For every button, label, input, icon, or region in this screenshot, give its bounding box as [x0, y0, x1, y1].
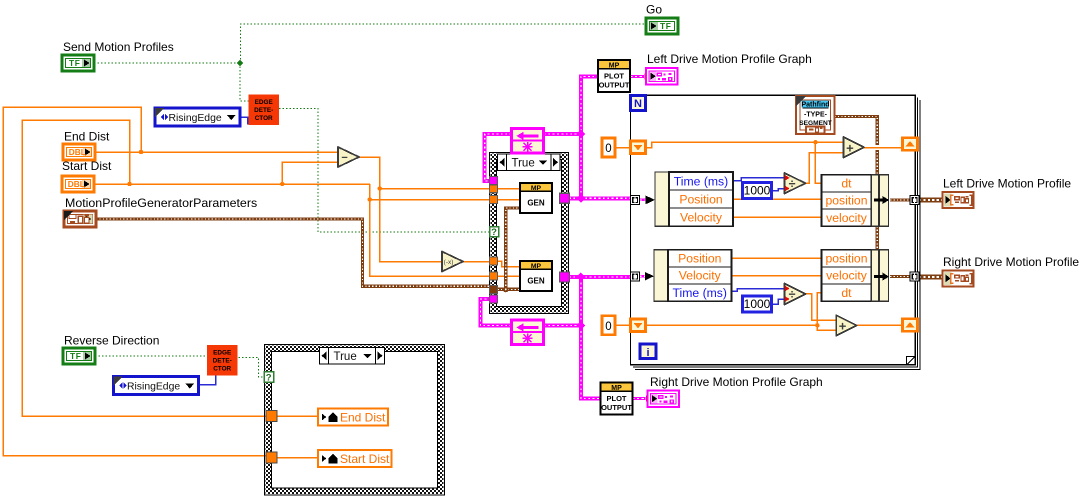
- wire: add 1 output to right shift register: [864, 147, 905, 149]
- wire: Start Dist to junctions: [94, 183, 370, 185]
- case structure 1 border: [490, 153, 569, 314]
- wire: 0 constant to left shift register (top): [615, 147, 631, 149]
- for loop frame: [631, 95, 916, 364]
- Pathfind type segment VI icon: [796, 96, 835, 134]
- svg-text:1000: 1000: [744, 184, 771, 198]
- shift register left bottom: [631, 319, 646, 332]
- node: brown wire junction: [503, 287, 509, 293]
- svg-text:OUTPUT: OUTPUT: [599, 81, 630, 90]
- svg-text:÷: ÷: [789, 288, 796, 302]
- case structure 2 border: [265, 345, 445, 496]
- indicator: Right Drive Motion Profile: [943, 271, 974, 287]
- svg-text:1000: 1000: [744, 297, 771, 311]
- constant 1000 top: [743, 183, 772, 199]
- svg-text:PLOT: PLOT: [604, 72, 624, 81]
- wire: MP GEN 1 output to plot output 1 and loop: [569, 77, 598, 199]
- local variable Start Dist: [318, 450, 392, 467]
- svg-text:OUTPUT: OUTPUT: [601, 403, 632, 412]
- svg-text:MP: MP: [611, 385, 622, 392]
- svg-text:RisingEdge: RisingEdge: [127, 382, 180, 393]
- wire: 0 constant to left shift register (bottom): [615, 324, 631, 326]
- divide node 1: [785, 173, 806, 194]
- svg-text:DETE-: DETE-: [254, 107, 273, 114]
- case structure 2 selector: [320, 348, 385, 365]
- svg-text:GEN: GEN: [527, 277, 545, 286]
- indicator: Left Drive Motion Profile: [943, 192, 974, 208]
- svg-text:TF: TF: [660, 21, 671, 31]
- local variable End Dist: [318, 409, 388, 426]
- tunnel: feedback into case 1 lower (magenta): [490, 295, 498, 303]
- divide node 2: [785, 284, 806, 305]
- control: End Dist: [63, 144, 95, 160]
- svg-text:TF: TF: [69, 58, 80, 68]
- wire: edge detector 1 output to case 1 selector: [279, 109, 490, 233]
- wire: Send Motion Profiles boolean to junction: [94, 62, 240, 64]
- svg-text:Send Motion Profiles: Send Motion Profiles: [63, 40, 174, 54]
- tunnel: GEN 1 output: [560, 193, 570, 203]
- tunnel: negated difference input: [490, 257, 498, 265]
- bundle by name 2: [822, 250, 872, 267]
- wire: subtract output down to negate: [359, 157, 442, 262]
- wire: branch to feedback node 1: [544, 132, 581, 136]
- svg-text:Go: Go: [646, 3, 662, 17]
- wire: 1000 constant to divide 1: [771, 189, 785, 191]
- svg-text:EDGE: EDGE: [213, 350, 232, 357]
- unbundle by name 1: [655, 172, 669, 226]
- tunnel: end dist local input: [266, 411, 277, 422]
- wire: bundle 2 output to loop tunnel: [890, 275, 910, 278]
- svg-text:Reverse Direction: Reverse Direction: [64, 334, 159, 348]
- wire: Start Dist swap route to End Dist local: [22, 120, 267, 416]
- wire: difference to case tunnel (upper GEN input): [380, 188, 491, 190]
- wire: case 2 locals: [277, 415, 318, 417]
- wire: GEN 2 cluster to for loop: [581, 275, 631, 279]
- wire: End Dist to subtract: [95, 151, 338, 153]
- svg-text:Start Dist: Start Dist: [340, 452, 390, 466]
- N count terminal: [631, 95, 646, 110]
- wire: unbundle Position/Velocity to bundle (bottom): [732, 257, 822, 259]
- tunnel: loop index out 1: [910, 196, 919, 205]
- tunnel: GEN 2 output: [560, 272, 570, 282]
- edge detector 1: [249, 95, 280, 126]
- negate node: [442, 252, 463, 272]
- svg-text:MP: MP: [531, 263, 542, 270]
- wire: parameters cluster to case 1: [96, 219, 491, 286]
- svg-text:i: i: [646, 347, 649, 359]
- wire: branch to feedback node 2: [544, 323, 581, 327]
- svg-text:MotionProfileGeneratorParamete: MotionProfileGeneratorParameters: [65, 196, 257, 210]
- svg-text:÷: ÷: [789, 177, 796, 191]
- constant 0 bottom: [602, 316, 615, 335]
- feedback node 1: [512, 129, 544, 154]
- tunnel: case 1 selector ?: [490, 227, 499, 237]
- svg-text:True: True: [512, 158, 535, 170]
- svg-text:Right Drive Motion Profile Gra: Right Drive Motion Profile Graph: [650, 375, 823, 389]
- svg-text:N: N: [634, 98, 642, 110]
- add node 1: [844, 137, 865, 158]
- indicator: Go: [646, 18, 678, 34]
- svg-text:DBL: DBL: [69, 147, 86, 157]
- combo: RisingEdge 1: [155, 108, 240, 126]
- tunnel: start dist input: [490, 196, 498, 204]
- svg-text:MP: MP: [609, 62, 620, 69]
- svg-text:GEN: GEN: [527, 199, 545, 208]
- tunnel: case 2 selector ?: [264, 372, 274, 383]
- wire: Start Dist branch to case tunnel: [370, 199, 491, 201]
- wire: GEN 1 cluster to for loop: [581, 196, 631, 200]
- svg-text:0: 0: [605, 321, 611, 333]
- svg-text:velocity: velocity: [826, 211, 868, 225]
- svg-text:Velocity: Velocity: [679, 269, 722, 283]
- node: green wire junction: [237, 60, 244, 67]
- wire: Start Dist up to subtract lower input: [282, 162, 338, 184]
- wire: RisingEdge 1 to edge detector 1: [240, 117, 248, 125]
- svg-text:position: position: [825, 252, 867, 266]
- wire: junction up to Go: [241, 24, 647, 63]
- wire: add 1 output crossing: [864, 147, 905, 149]
- wire: feedback node 1 output back into case: [485, 134, 512, 181]
- shift register right bottom: [903, 319, 918, 332]
- wire: divide 2 output to add 2 upper input: [806, 294, 837, 320]
- control: Reverse Direction: [63, 348, 95, 364]
- tunnel: loop index out 2: [910, 272, 919, 281]
- edge detector 2: [207, 345, 238, 376]
- control: Start Dist: [62, 176, 94, 192]
- MP GEN 2: [520, 261, 552, 291]
- wire: plot output 2 to graph terminal: [632, 397, 646, 400]
- svg-text:dt: dt: [841, 177, 852, 191]
- svg-text:Left Drive Motion Profile: Left Drive Motion Profile: [943, 177, 1071, 191]
- svg-text:RisingEdge: RisingEdge: [169, 113, 222, 124]
- svg-text:EDGE: EDGE: [255, 99, 274, 106]
- tunnel: loop index in 2: [631, 272, 640, 281]
- i iteration terminal: [640, 344, 656, 359]
- svg-text:True: True: [334, 351, 357, 363]
- svg-text:+: +: [846, 140, 854, 155]
- unbundle by name 2: [654, 250, 668, 302]
- wire: Reverse Direction boolean to edge detector 2: [95, 355, 207, 357]
- wire: plot output 1 to graph terminal: [630, 75, 644, 78]
- svg-text:Time (ms): Time (ms): [673, 286, 727, 300]
- svg-text:CTOR: CTOR: [213, 366, 231, 373]
- svg-text:Time (ms): Time (ms): [674, 174, 728, 188]
- svg-text:?: ?: [491, 227, 497, 238]
- svg-text:Left Drive Motion Profile Grap: Left Drive Motion Profile Graph: [647, 52, 812, 66]
- svg-text:TF: TF: [70, 351, 81, 361]
- svg-text:Position: Position: [679, 192, 722, 206]
- add node 2: [836, 315, 857, 336]
- svg-text:DETE-: DETE-: [213, 358, 232, 365]
- wire: Time (ms) to divide 2: [732, 289, 785, 292]
- tunnel: feedback into case 1 (magenta): [490, 177, 498, 185]
- wire: End Dist swap route to Start Dist local: [3, 107, 267, 456]
- wire: edge detector 2 output to case 2 selector: [239, 358, 265, 378]
- case structure 1 selector: [498, 154, 561, 171]
- wire: RisingEdge 2 to edge detector 2: [199, 376, 216, 385]
- wire: case tunnel to MP GEN 1 inputs: [498, 188, 521, 190]
- svg-text:Pathfind: Pathfind: [802, 101, 830, 108]
- svg-text:0: 0: [605, 143, 611, 155]
- tunnel: loop index in 1: [631, 196, 640, 205]
- wire: 1000 constant to divide 2: [772, 299, 785, 304]
- shift register left top: [631, 141, 646, 154]
- wire: Pathfind segment type cluster to bundles: [835, 117, 878, 175]
- bundle by name 1: [822, 175, 872, 192]
- wire: case tunnels to MP GEN 2 inputs: [498, 261, 521, 267]
- wire: Time (ms) to divide 1: [733, 178, 785, 181]
- tunnel: difference input: [490, 185, 498, 193]
- combo: RisingEdge 2: [114, 377, 199, 395]
- svg-text:Start Dist: Start Dist: [62, 159, 112, 173]
- constant 1000 bottom: [743, 296, 772, 312]
- svg-text:(-x): (-x): [444, 259, 454, 266]
- feedback node 2: [512, 320, 544, 345]
- svg-text:−: −: [341, 152, 347, 164]
- wire: feedback node 2 output back into case: [480, 299, 511, 325]
- wire: indexed profiles into unbundles: [640, 199, 646, 202]
- wire: shift register to add 1 and dt: [647, 142, 844, 147]
- svg-text:dt: dt: [841, 286, 852, 300]
- wire: add 2 output to right shift register: [857, 324, 905, 326]
- svg-text:?: ?: [266, 373, 272, 384]
- shift register right top: [903, 138, 918, 151]
- MP PLOT OUTPUT 2: [601, 383, 633, 415]
- wire: unbundle Position/Velocity to bundle (top): [733, 198, 822, 200]
- wire: profile array to Left Drive indicator: [919, 197, 943, 202]
- subtract node: [338, 147, 359, 167]
- for loop stacked shadow lines: [633, 98, 918, 367]
- svg-text:-TYPE-: -TYPE-: [804, 111, 828, 118]
- wire: MP GEN 2 output to plot output 2: [569, 277, 601, 399]
- tunnel: start dist local input: [266, 452, 277, 463]
- svg-text:velocity: velocity: [826, 269, 868, 283]
- wire: bundle 1 output to loop tunnel: [890, 199, 910, 202]
- graph terminal 1: [646, 68, 678, 85]
- wire: negate output to case tunnel: [463, 261, 491, 263]
- svg-text:MP: MP: [531, 185, 542, 192]
- wire: Start Dist down the case inputs: [370, 184, 491, 276]
- svg-text:End Dist: End Dist: [340, 410, 386, 424]
- svg-text:Right Drive Motion Profile: Right Drive Motion Profile: [943, 255, 1079, 269]
- control: MotionProfileGeneratorParameters: [64, 211, 96, 227]
- svg-text:DBL: DBL: [68, 179, 85, 189]
- svg-text:position: position: [825, 194, 867, 208]
- MP PLOT OUTPUT 1: [598, 60, 630, 92]
- tunnel: start dist input 2: [490, 272, 498, 280]
- wire: divide 1 output to add 1 lower input: [806, 153, 844, 184]
- graph terminal 2: [648, 391, 680, 408]
- svg-text:Position: Position: [678, 252, 721, 266]
- svg-text:CTOR: CTOR: [255, 115, 273, 122]
- for loop folded corner: [907, 357, 916, 365]
- svg-text:+: +: [839, 319, 847, 334]
- wire: parameters inside case to both GEN nodes: [498, 288, 521, 291]
- svg-text:End Dist: End Dist: [64, 130, 110, 144]
- tunnel: parameters input: [490, 285, 498, 293]
- svg-text:PLOT: PLOT: [607, 394, 627, 403]
- wire: bottom shift register to add 2 and dt: [647, 325, 837, 330]
- wire: profile array to Right Drive indicator: [919, 274, 943, 279]
- svg-text:Velocity: Velocity: [680, 210, 723, 224]
- constant 0 top: [602, 138, 615, 157]
- MP GEN 1: [520, 183, 552, 213]
- control: Send Motion Profiles: [62, 55, 94, 71]
- wire: junction down to edge detector 1: [240, 63, 249, 101]
